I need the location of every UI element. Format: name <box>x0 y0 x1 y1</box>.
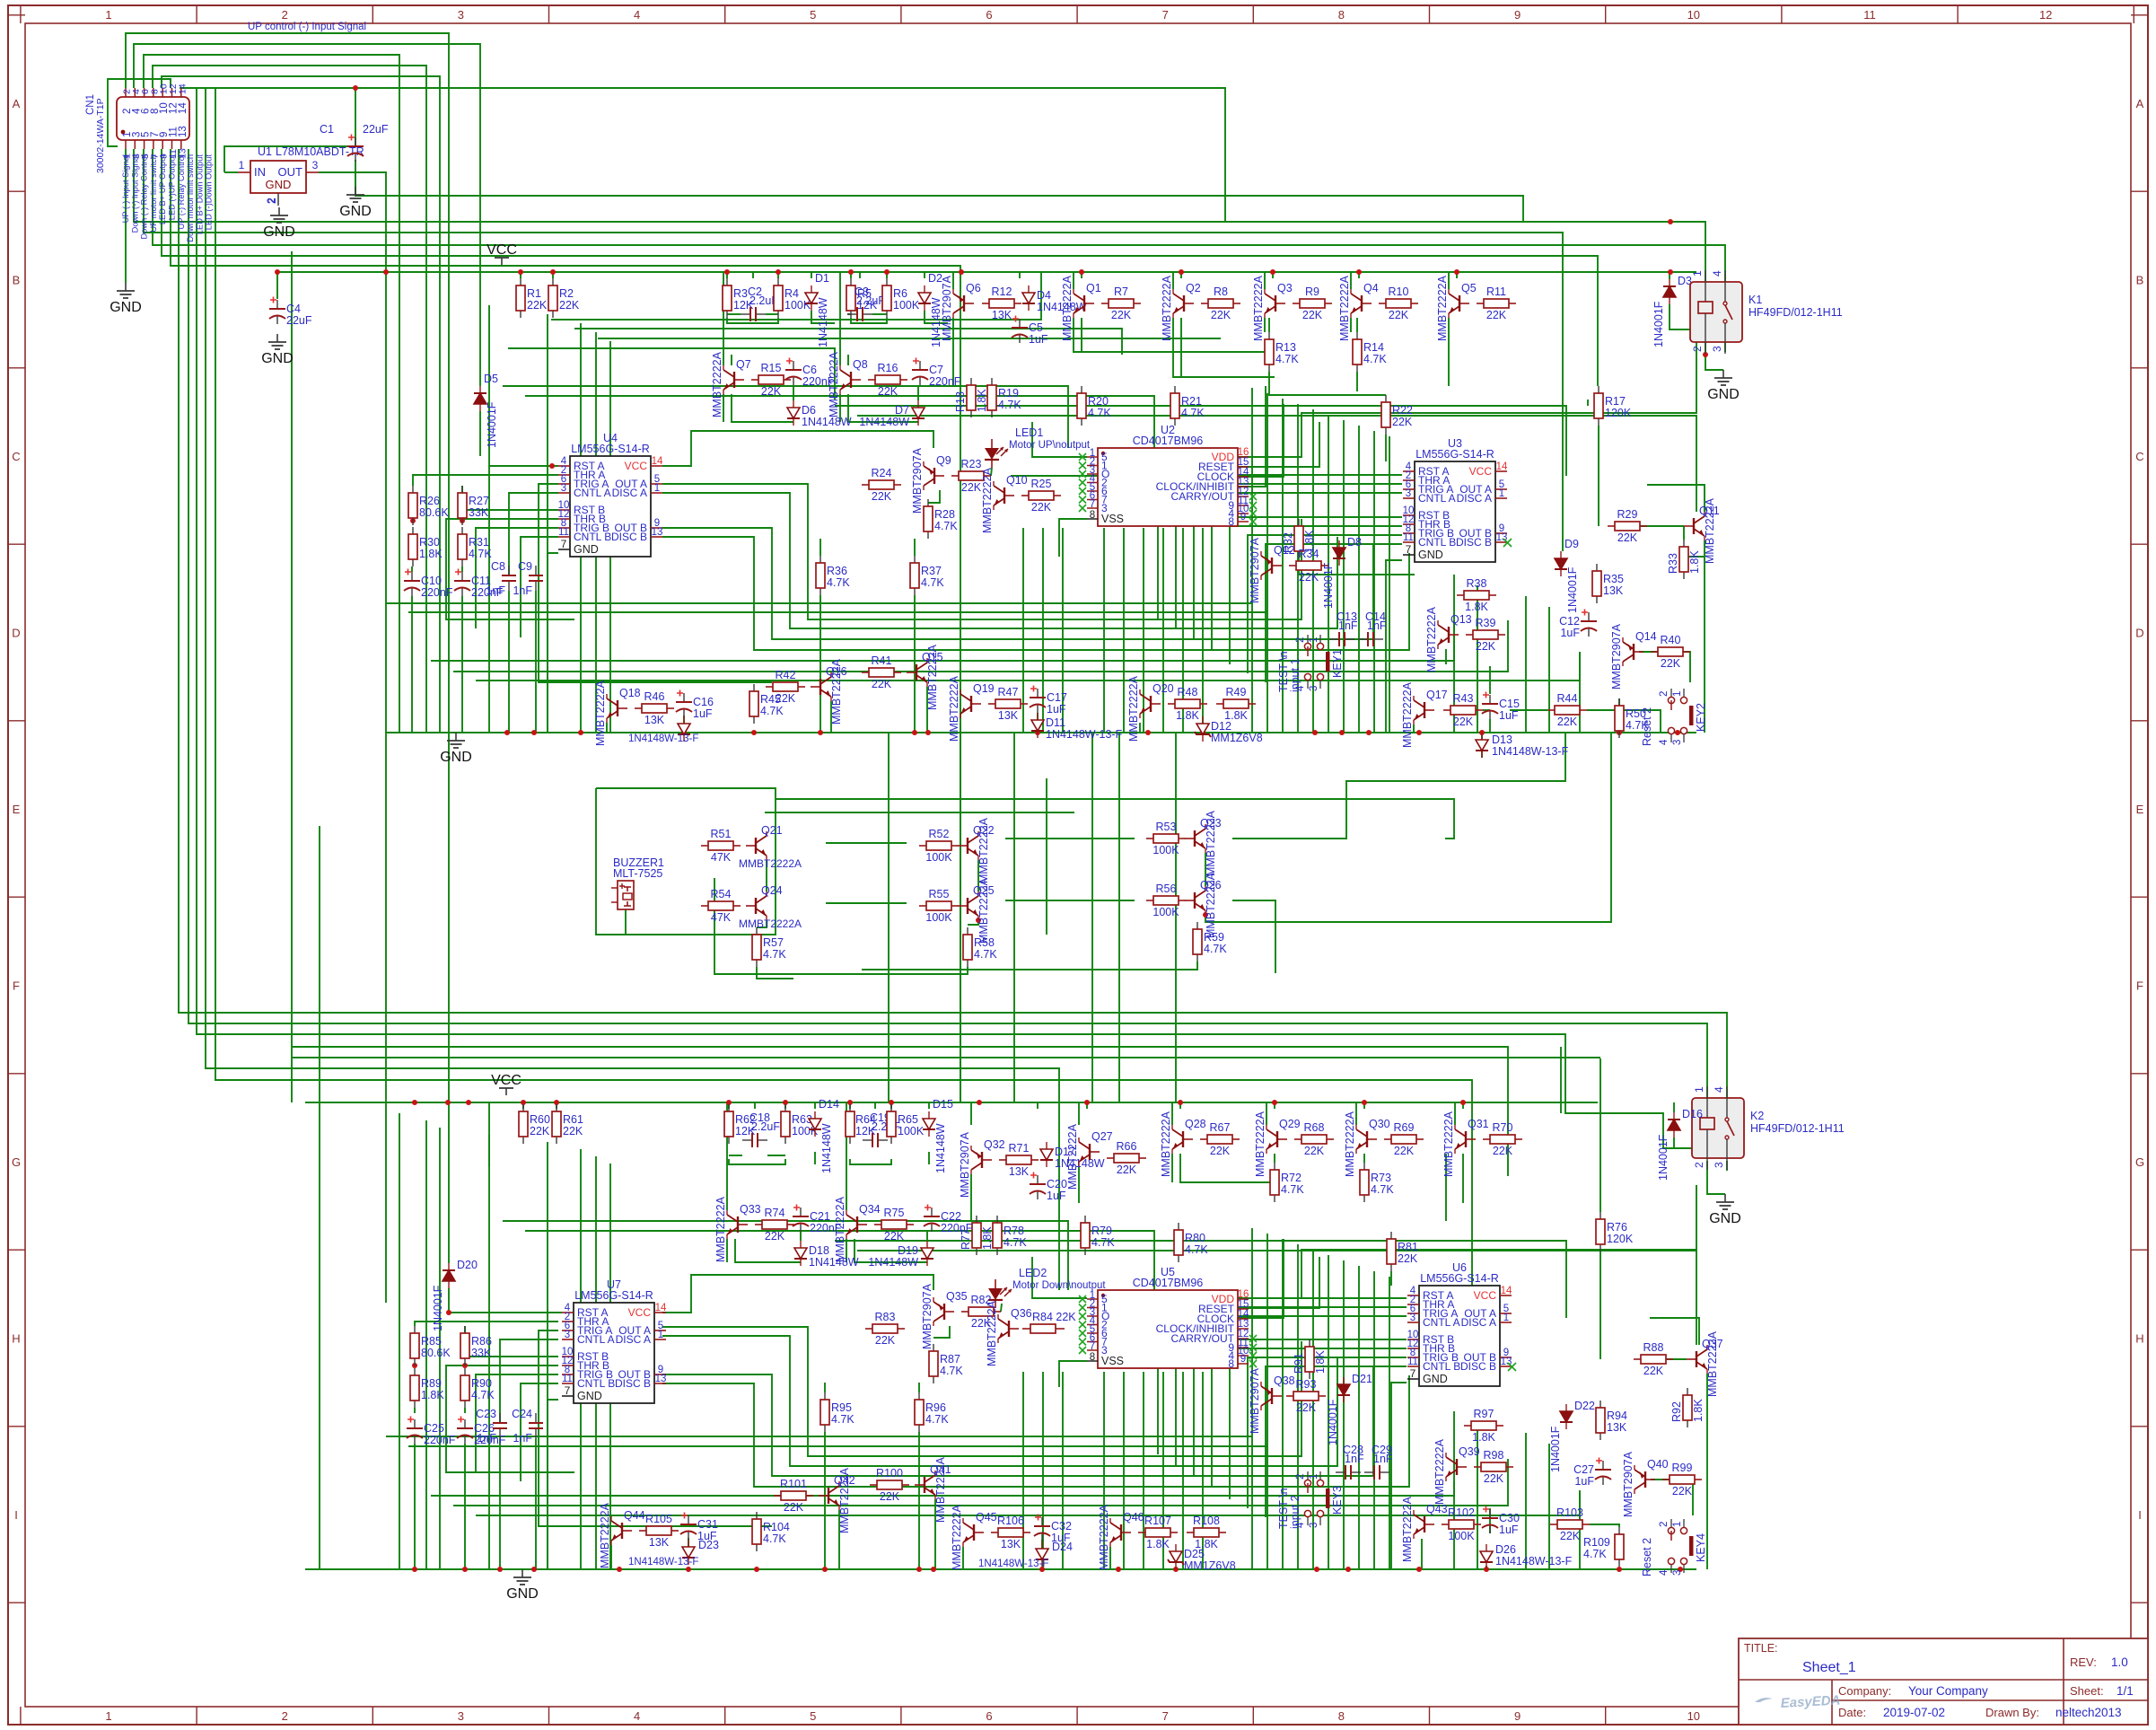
wire <box>1481 733 1483 758</box>
svg-text:3: 3 <box>1672 740 1683 745</box>
svg-text:9: 9 <box>1240 1354 1246 1365</box>
svg-text:Q9: Q9 <box>936 454 951 467</box>
node junction <box>590 472 595 478</box>
svg-text:22K: 22K <box>1486 309 1507 321</box>
svg-text:4.7K: 4.7K <box>974 948 997 961</box>
svg-text:220nF: 220nF <box>424 1434 456 1446</box>
wire <box>811 272 812 278</box>
node junction <box>848 269 854 275</box>
transistor Q10 <box>1004 495 1014 496</box>
wire <box>1639 525 1684 527</box>
wire <box>521 1383 558 1481</box>
wire <box>292 1047 1508 1176</box>
wire <box>488 305 490 733</box>
wire <box>1343 420 1345 733</box>
wire <box>859 272 861 278</box>
wire <box>488 1102 490 1167</box>
svg-text:9: 9 <box>1514 1709 1521 1723</box>
svg-text:VCC: VCC <box>628 1306 652 1319</box>
wire <box>1182 528 1184 733</box>
wire <box>888 733 890 1102</box>
wire <box>924 272 925 278</box>
wire <box>1651 1480 1693 1515</box>
svg-text:C32: C32 <box>1051 1520 1072 1532</box>
transistor Q31 <box>1466 1138 1476 1140</box>
diode D8 <box>1338 540 1340 548</box>
node junction <box>925 730 931 735</box>
wire <box>1266 1234 1268 1569</box>
wire <box>413 475 558 486</box>
wire <box>386 732 1696 733</box>
svg-text:GND: GND <box>110 300 142 315</box>
wire <box>162 149 1598 386</box>
resistor R41 <box>862 672 869 673</box>
wire <box>857 416 1696 512</box>
svg-text:Q6: Q6 <box>966 282 981 294</box>
node junction <box>531 1567 537 1572</box>
svg-text:R53: R53 <box>1156 821 1177 833</box>
svg-text:R41: R41 <box>872 654 892 667</box>
resistor R38 <box>1457 594 1464 596</box>
wire <box>662 528 1373 639</box>
node junction <box>1179 269 1184 275</box>
svg-text:100K: 100K <box>784 299 811 312</box>
resistor R69 <box>1384 1138 1391 1140</box>
wire <box>431 620 1454 661</box>
node junction <box>1416 1567 1422 1572</box>
resistor R2 <box>552 278 554 285</box>
resistor R88 <box>1634 1358 1641 1360</box>
svg-text:C23: C23 <box>476 1408 496 1420</box>
svg-text:3: 3 <box>1309 686 1319 691</box>
resistor R50 <box>1618 698 1620 706</box>
svg-text:8: 8 <box>1228 515 1234 528</box>
wire <box>1074 318 1269 352</box>
transistor Q5 <box>1459 303 1469 304</box>
svg-text:4.7K: 4.7K <box>934 520 958 532</box>
switch KEY3 <box>1304 1480 1310 1486</box>
wire <box>926 687 928 733</box>
wire <box>814 1152 816 1164</box>
svg-text:R94: R94 <box>1607 1409 1627 1422</box>
capacitor C25 <box>414 1419 416 1428</box>
wire <box>1684 540 1705 557</box>
resistor R109 <box>1618 1527 1620 1534</box>
wire <box>1073 272 1074 289</box>
wire <box>662 1275 933 1313</box>
wire <box>1139 723 1141 733</box>
svg-text:K1: K1 <box>1748 294 1762 306</box>
svg-text:D23: D23 <box>698 1539 719 1551</box>
svg-text:MMBT2222A: MMBT2222A <box>1252 275 1265 341</box>
wire <box>848 394 918 422</box>
svg-text:R87: R87 <box>940 1353 960 1366</box>
wire <box>522 1102 524 1109</box>
wire <box>1445 649 1447 664</box>
wire <box>414 1408 416 1413</box>
wire <box>1312 409 1314 733</box>
transistor Q12 <box>1272 565 1282 566</box>
svg-text:8: 8 <box>1090 510 1095 521</box>
svg-text:I: I <box>2138 1508 2142 1522</box>
ground GND <box>125 283 127 291</box>
wire <box>731 355 732 365</box>
node junction <box>462 1567 468 1572</box>
wire <box>1548 607 1550 733</box>
wire <box>448 1102 450 1263</box>
svg-text:R23: R23 <box>961 458 982 470</box>
resistor R53 <box>1146 838 1153 839</box>
wire <box>1251 1228 1253 1569</box>
svg-text:DISC A: DISC A <box>1461 1316 1496 1329</box>
svg-text:R92: R92 <box>1670 1401 1683 1422</box>
wire <box>952 272 954 289</box>
wire <box>1707 1161 1725 1194</box>
svg-text:R104: R104 <box>763 1521 790 1533</box>
wire <box>1180 1154 1275 1182</box>
wire <box>503 1221 1068 1290</box>
resistor R6 <box>886 278 888 285</box>
svg-text:MMBT2907A: MMBT2907A <box>1249 1367 1261 1434</box>
wire <box>1013 733 1015 1102</box>
svg-text:MMBT2222A: MMBT2222A <box>1098 1504 1110 1570</box>
svg-text:22K: 22K <box>1389 309 1409 321</box>
svg-text:1N4148W-13-F: 1N4148W-13-F <box>1495 1555 1573 1568</box>
node junction <box>889 1100 894 1105</box>
wire <box>1389 436 1390 733</box>
wire <box>476 652 1580 681</box>
wire <box>850 272 852 278</box>
wire <box>857 1251 1696 1345</box>
svg-text:100K: 100K <box>893 299 920 312</box>
svg-text:2019-07-02: 2019-07-02 <box>1883 1706 1945 1719</box>
node junction <box>383 269 389 275</box>
svg-text:22K: 22K <box>880 1490 900 1503</box>
svg-text:R109: R109 <box>1583 1536 1610 1549</box>
resistor R27 <box>461 486 463 493</box>
svg-text:GND: GND <box>577 1390 602 1402</box>
resistor R104 <box>756 1512 758 1519</box>
svg-text:R46: R46 <box>644 690 665 703</box>
wire <box>766 313 778 315</box>
wire <box>728 1102 730 1109</box>
svg-text:Q14: Q14 <box>1635 630 1657 643</box>
resistor R68 <box>1294 1138 1301 1140</box>
wire <box>1232 733 1565 839</box>
svg-text:4.7K: 4.7K <box>1275 353 1299 365</box>
svg-text:1nF: 1nF <box>513 584 532 597</box>
svg-text:3: 3 <box>1406 488 1411 499</box>
wire <box>1486 1566 1487 1569</box>
wire <box>508 591 510 733</box>
wire <box>1661 1358 1687 1360</box>
svg-text:1: 1 <box>105 1709 111 1723</box>
svg-text:R21: R21 <box>1181 395 1202 408</box>
svg-text:22K: 22K <box>1304 1145 1325 1157</box>
wire <box>1182 1372 1184 1569</box>
svg-text:R78: R78 <box>1004 1225 1024 1237</box>
switch KEY1 <box>1304 643 1310 649</box>
resistor R7 <box>1101 303 1109 304</box>
diode D7 <box>917 400 919 408</box>
svg-text:R10: R10 <box>1389 285 1409 298</box>
wire <box>933 1326 950 1338</box>
svg-text:7: 7 <box>565 1384 571 1397</box>
svg-text:CNTL A: CNTL A <box>1423 1316 1460 1329</box>
transistor Q35 <box>944 1311 954 1313</box>
diode D11 <box>1037 713 1039 720</box>
svg-text:R15: R15 <box>761 362 782 374</box>
wire <box>319 172 386 272</box>
node junction <box>1084 1100 1090 1105</box>
svg-text:1N4001F: 1N4001F <box>1322 562 1335 609</box>
wire <box>714 878 968 974</box>
node junction <box>1454 269 1459 275</box>
capacitor C24 <box>535 1413 537 1423</box>
transistor Q41 <box>915 1484 925 1486</box>
svg-text:R73: R73 <box>1371 1172 1391 1184</box>
wire <box>503 386 1068 448</box>
diode D4 <box>1028 285 1030 293</box>
wire <box>835 1241 1566 1318</box>
svg-text:Q31: Q31 <box>1468 1118 1489 1130</box>
svg-text:7: 7 <box>1162 1709 1169 1723</box>
wire <box>500 1339 558 1422</box>
resistor R96 <box>918 1392 920 1400</box>
svg-text:1.8K: 1.8K <box>1688 550 1701 574</box>
svg-text:R86: R86 <box>471 1335 492 1348</box>
svg-text:Sheet_1: Sheet_1 <box>1802 1660 1856 1675</box>
svg-text:VCC: VCC <box>486 242 517 258</box>
wire <box>276 272 278 299</box>
svg-text:1.8K: 1.8K <box>1465 601 1488 613</box>
wire <box>1266 393 1268 733</box>
svg-text:D22: D22 <box>1574 1400 1595 1412</box>
node junction <box>518 269 523 275</box>
svg-text:R17: R17 <box>1605 395 1626 408</box>
wire <box>399 1113 400 1569</box>
wire <box>1238 1239 1284 1318</box>
svg-text:14: 14 <box>178 102 188 114</box>
svg-text:R9: R9 <box>1305 285 1319 298</box>
svg-text:C1: C1 <box>320 123 334 136</box>
svg-text:1: 1 <box>1309 637 1319 643</box>
ground GND <box>355 187 356 195</box>
svg-text:22K: 22K <box>872 490 892 503</box>
wire <box>1343 1260 1345 1569</box>
svg-text:3: 3 <box>312 159 319 171</box>
wire <box>850 1159 891 1164</box>
svg-text:UP control (-) Input Signal: UP control (-) Input Signal <box>248 22 366 32</box>
resistor R82 <box>961 1311 968 1313</box>
node junction <box>783 1100 788 1105</box>
capacitor C17 <box>1037 689 1039 698</box>
diode D22 <box>1565 1404 1567 1411</box>
svg-text:22K: 22K <box>961 481 982 494</box>
svg-text:R95: R95 <box>831 1401 852 1414</box>
wire <box>726 1102 728 1210</box>
wire <box>153 149 1725 282</box>
svg-text:1N4148W: 1N4148W <box>802 416 852 428</box>
svg-text:R19: R19 <box>998 387 1019 400</box>
svg-text:22K: 22K <box>1031 501 1052 514</box>
svg-text:Q33: Q33 <box>740 1203 761 1216</box>
wire <box>1059 519 1087 557</box>
wire <box>446 1366 574 1472</box>
svg-text:13K: 13K <box>1009 1165 1030 1178</box>
svg-text:Q39: Q39 <box>1459 1445 1480 1458</box>
svg-text:MMBT2907A: MMBT2907A <box>941 275 953 341</box>
svg-text:D5: D5 <box>484 373 498 385</box>
wire <box>1091 733 1093 1102</box>
svg-text:2: 2 <box>1659 1522 1670 1527</box>
wire <box>385 272 387 733</box>
svg-text:1: 1 <box>1672 691 1683 697</box>
diode D18 <box>800 1241 802 1248</box>
wire <box>408 1445 1267 1447</box>
title block <box>1739 1638 2148 1725</box>
svg-text:22K: 22K <box>1296 1401 1317 1414</box>
svg-text:CNTL B: CNTL B <box>577 1377 615 1390</box>
wire <box>1363 1102 1365 1109</box>
svg-text:R1: R1 <box>527 287 541 300</box>
resistor R87 <box>933 1344 934 1351</box>
resistor R35 <box>1596 564 1598 571</box>
svg-text:6: 6 <box>986 8 992 22</box>
svg-text:Down motor limit switch: Down motor limit switch <box>186 154 195 242</box>
wire <box>278 271 1696 273</box>
diode D3 <box>1669 279 1670 286</box>
svg-text:22K: 22K <box>1394 1145 1415 1157</box>
svg-text:Q10: Q10 <box>1006 474 1028 487</box>
svg-text:7: 7 <box>1090 1341 1095 1352</box>
svg-text:MMBT2222A: MMBT2222A <box>1205 872 1217 938</box>
capacitor C13 <box>1329 638 1339 640</box>
wire <box>1268 318 1270 332</box>
transistor Q3 <box>1275 303 1285 304</box>
resistor R108 <box>1187 1532 1194 1533</box>
wire <box>1180 272 1182 278</box>
svg-text:R26: R26 <box>419 495 440 507</box>
svg-text:K2: K2 <box>1750 1110 1764 1122</box>
wire <box>224 171 238 173</box>
wire <box>1453 1411 1455 1569</box>
wire <box>476 1492 1580 1515</box>
svg-text:R29: R29 <box>1617 508 1638 521</box>
svg-text:C27: C27 <box>1573 1463 1594 1476</box>
wire <box>446 519 574 619</box>
svg-text:1.8K: 1.8K <box>1472 1431 1495 1444</box>
svg-text:8: 8 <box>1338 8 1345 22</box>
wire <box>960 733 961 1102</box>
op-amp timer U4 <box>570 456 651 557</box>
svg-text:D20: D20 <box>457 1259 478 1271</box>
wire <box>556 1102 557 1109</box>
svg-text:4.7K: 4.7K <box>827 576 850 589</box>
resistor R18 <box>970 378 972 385</box>
wire <box>847 355 849 365</box>
node junction <box>554 1100 559 1105</box>
resistor R49 <box>1216 703 1223 705</box>
svg-text:Q35: Q35 <box>946 1290 968 1303</box>
wire <box>800 1232 802 1241</box>
svg-text:1uF: 1uF <box>693 707 713 720</box>
svg-text:Q13: Q13 <box>1450 613 1472 626</box>
svg-text:R60: R60 <box>530 1113 550 1126</box>
svg-text:VSS: VSS <box>1101 1355 1124 1367</box>
svg-text:220nF: 220nF <box>421 586 453 599</box>
node junction <box>912 730 917 735</box>
capacitor C8 <box>508 566 510 575</box>
transistor Q18 <box>618 707 627 709</box>
node junction <box>412 1100 417 1105</box>
svg-text:C17: C17 <box>1047 691 1067 704</box>
relay K2 <box>1692 1098 1744 1158</box>
resistor R33 <box>1683 540 1685 547</box>
wire <box>1673 1102 1675 1103</box>
svg-text:10: 10 <box>1687 8 1700 22</box>
svg-text:R27: R27 <box>469 495 489 507</box>
node junction <box>446 1310 451 1315</box>
node junction <box>686 1567 691 1572</box>
svg-text:100K: 100K <box>925 911 952 924</box>
wire <box>414 1444 416 1569</box>
resistor R58 <box>967 927 968 935</box>
svg-text:1.8K: 1.8K <box>1314 1350 1327 1374</box>
svg-text:C30: C30 <box>1499 1512 1520 1524</box>
wire <box>461 566 463 572</box>
svg-text:I: I <box>14 1508 18 1522</box>
wire <box>1238 422 1319 467</box>
wire <box>609 1164 611 1569</box>
wire <box>1037 1102 1039 1109</box>
svg-text:4.7K: 4.7K <box>471 1389 495 1401</box>
svg-text:47K: 47K <box>711 851 732 864</box>
node junction <box>1039 1567 1045 1572</box>
svg-text:47K: 47K <box>711 911 732 924</box>
wire <box>1350 318 1352 332</box>
op-amp timer U7 <box>574 1303 654 1403</box>
node junction <box>412 1567 417 1572</box>
wire <box>934 1499 936 1569</box>
svg-text:MMBT2222A: MMBT2222A <box>594 680 607 746</box>
wire <box>606 723 608 733</box>
svg-text:1: 1 <box>105 8 111 22</box>
wire <box>1269 372 1386 395</box>
wire <box>386 1436 1252 1437</box>
wire <box>824 1383 826 1392</box>
svg-text:1N4148W: 1N4148W <box>817 297 829 347</box>
wire <box>1525 1433 1527 1569</box>
wire <box>488 1135 490 1569</box>
transistor Q42 <box>819 1495 828 1497</box>
svg-text:VCC: VCC <box>1469 465 1493 478</box>
svg-text:B: B <box>13 274 21 287</box>
resistor R102 <box>1442 1524 1449 1525</box>
svg-text:MMBT2222A: MMBT2222A <box>1425 606 1438 672</box>
svg-text:C16: C16 <box>693 696 714 708</box>
svg-text:MMBT2222A: MMBT2222A <box>1401 1496 1414 1562</box>
wire <box>970 1174 972 1221</box>
svg-text:MMBT2222A: MMBT2222A <box>838 1467 851 1533</box>
node junction <box>1675 730 1680 735</box>
wire <box>291 251 293 1102</box>
node junction <box>818 730 823 735</box>
svg-text:33K: 33K <box>471 1347 492 1359</box>
svg-text:R75: R75 <box>884 1207 905 1219</box>
svg-text:1N4001F: 1N4001F <box>1327 1399 1339 1445</box>
capacitor C11 <box>461 572 463 581</box>
